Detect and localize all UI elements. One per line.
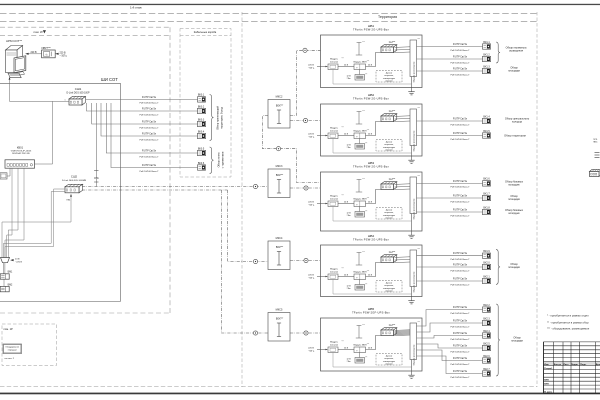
svg-text:питания: питания <box>330 344 339 346</box>
svg-text:колодцев: колодцев <box>508 212 520 215</box>
caption module ShV5 brace <box>496 304 500 376</box>
svg-text:пом. 1Р: пом. 1Р <box>4 327 14 331</box>
module ШВ4 battery AKB <box>359 280 361 285</box>
svg-text:Сш***: Сш*** <box>389 110 396 113</box>
svg-text:СШ2: СШ2 <box>71 175 78 179</box>
cable transition SV <box>1 258 10 263</box>
svg-text:PoE 10/100 Base-T: PoE 10/100 Base-T <box>450 201 470 203</box>
svg-text:Оборудование: Оборудование <box>5 347 19 349</box>
svg-text:ВК1.2: ВК1.2 <box>483 53 490 56</box>
fiber MKS1 up to module ShV1 port <box>290 50 321 115</box>
svg-text:ВК2.3: ВК2.3 <box>483 317 490 320</box>
module ШВ1 switch icon <box>381 45 397 47</box>
wire bundle KV01 a <box>7 168 12 257</box>
svg-text:24 В: 24 В <box>368 347 373 349</box>
svg-text:с турникетами: с турникетами <box>222 151 225 168</box>
svg-text:***: *** <box>342 195 345 197</box>
fiber MKS1 to module ShV2 port <box>290 120 321 122</box>
module ШВ1 output wire 1 <box>417 46 483 48</box>
module ШВ5 output wire 3 <box>417 336 483 339</box>
module ШВ3 switch icon <box>381 182 397 184</box>
svg-text:ГИП: ГИП <box>544 380 549 382</box>
module ШВ3 UPS module <box>354 201 366 207</box>
svg-text:***: *** <box>418 108 421 110</box>
svg-text:Сш***: Сш*** <box>389 324 396 327</box>
module ШВ1 enclosure box <box>321 35 423 88</box>
svg-text:АРМ СОТ**: АРМ СОТ** <box>6 39 23 43</box>
svg-text:7 Ач: 7 Ач <box>346 287 350 290</box>
module ШВ4 UPS module <box>354 274 366 280</box>
svg-text:площадки: площадки <box>508 70 520 73</box>
boundary bottom dash y=386.5 <box>0 386 537 388</box>
svg-text:PoE 10/100 Base-T: PoE 10/100 Base-T <box>450 364 470 366</box>
svg-text:~ 50Гц: ~ 50Гц <box>60 56 68 58</box>
wire SSh1 row2 <box>87 103 198 111</box>
svg-text:VIDEOVOX-IP-16/25: VIDEOVOX-IP-16/25 <box>11 150 32 152</box>
svg-text:F/UTP Cat 5e: F/UTP Cat 5e <box>142 96 157 99</box>
splice box МКС3 <box>268 169 290 198</box>
fiber node on SSh2-MKS2 run <box>253 184 257 188</box>
switch SSh1 <box>69 96 85 99</box>
svg-text:площадки: площадки <box>508 198 520 201</box>
fiber SSh2 second run <box>82 189 228 191</box>
svg-text:***: *** <box>365 357 368 359</box>
svg-text:ШВ1: ШВ1 <box>368 24 375 28</box>
svg-text:F/UTP Cat 5e: F/UTP Cat 5e <box>453 132 468 135</box>
svg-text:PoE 10/100 Base-T: PoE 10/100 Base-T <box>450 74 470 76</box>
svg-text:ВК1.6: ВК1.6 <box>483 178 490 181</box>
svg-text:***: *** <box>342 58 345 60</box>
svg-text:колодца: колодца <box>512 121 522 124</box>
module ШВ2 switch icon <box>381 114 397 116</box>
svg-text:F/UTP Cat 5e: F/UTP Cat 5e <box>453 252 468 255</box>
module ШВ4 bottom bus wire <box>333 280 412 295</box>
title block table <box>544 362 600 366</box>
module ШВ4 output wire 1 <box>417 255 483 257</box>
module ШВ1 wire AV to UPS <box>338 66 354 68</box>
svg-text:***: *** <box>362 325 365 327</box>
fiber SSh2 to MKS2 <box>82 186 268 188</box>
splice box МКС5 <box>268 313 290 342</box>
svg-text:***: *** <box>342 127 345 129</box>
svg-text:F/UTP Cat 5e: F/UTP Cat 5e <box>453 67 468 70</box>
svg-text:PoE 10/100 Base-T: PoE 10/100 Base-T <box>139 171 159 173</box>
module ШВ3 bottom bus wire <box>333 207 412 222</box>
svg-text:TFortis PSW-2G-UPS-Box: TFortis PSW-2G-UPS-Box <box>353 27 389 31</box>
wire SSh1 row5 <box>106 103 197 153</box>
svg-text:ВК1.5: ВК1.5 <box>483 130 490 133</box>
svg-text:** - приобретается в рамках об: ** - приобретается в рамках обор <box>547 320 589 324</box>
svg-text:питания: питания <box>330 61 339 63</box>
svg-text:КВ01: КВ01 <box>17 145 24 149</box>
module ШВ2 sensor dashed box <box>376 140 402 152</box>
svg-text:24 В: 24 В <box>15 258 20 260</box>
svg-text:220 В: 220 В <box>308 274 314 276</box>
svg-text:F/UTP Cat 5e: F/UTP Cat 5e <box>453 319 468 322</box>
svg-text:DISPLAY PRO 8D: DISPLAY PRO 8D <box>12 152 30 155</box>
svg-text:PoE 10/100 Base-T: PoE 10/100 Base-T <box>450 270 470 272</box>
svg-text:F/UTP Cat 5e: F/UTP Cat 5e <box>453 370 468 373</box>
svg-text:PoE 10/100 Base-T: PoE 10/100 Base-T <box>450 259 470 261</box>
room 1P dashed box <box>2 324 57 366</box>
svg-text:ЛВС: ЛВС <box>593 142 598 144</box>
svg-text:PoE 10/100 Base-T: PoE 10/100 Base-T <box>450 62 470 64</box>
module ШВ2 ground <box>411 146 413 157</box>
module ШВ5 ground <box>411 360 413 372</box>
svg-text:Подп.: Подп. <box>580 364 587 366</box>
svg-text:PoE 10/100 Base-T: PoE 10/100 Base-T <box>139 127 159 129</box>
module ШВ5 output wire 1 <box>417 310 483 326</box>
svg-text:PoE 10/100 Base-T: PoE 10/100 Base-T <box>139 103 159 105</box>
svg-text:F/UTP Cat 5e: F/UTP Cat 5e <box>453 263 468 266</box>
existing switch icon at sheet edge <box>590 169 600 171</box>
svg-text:F/UTP Cat 5e: F/UTP Cat 5e <box>453 117 468 120</box>
svg-text:24 В: 24 В <box>368 64 373 66</box>
svg-text:Модуль грозозащиты: Модуль грозозащиты <box>414 61 416 82</box>
svg-text:МКС4: МКС4 <box>276 237 283 240</box>
module ШВ5 bottom bus wire <box>333 353 412 368</box>
svg-text:PoE 10/100 Base-T: PoE 10/100 Base-T <box>450 351 470 353</box>
module ШВ2 output wire 1 <box>417 120 483 122</box>
wire SSh1 row6 <box>111 103 198 168</box>
caption module ShV4 brace <box>496 249 500 284</box>
svg-text:PoE 10/100 Base-T: PoE 10/100 Base-T <box>139 114 159 116</box>
svg-text:ИБП***: ИБП*** <box>42 46 52 50</box>
svg-text:24 В: 24 В <box>344 133 349 135</box>
module ШВ1 sensor dashed box <box>376 71 402 83</box>
svg-text:F/UTP Cat 5e: F/UTP Cat 5e <box>142 107 157 110</box>
svg-text:Кабельные короба: Кабельные короба <box>194 30 217 34</box>
fiber node chain <box>276 147 280 151</box>
svg-text:220 В: 220 В <box>308 133 314 135</box>
svg-text:Обзор территории: Обзор территории <box>504 134 526 138</box>
level mark triangle <box>43 30 46 33</box>
caption module ShV1 group a <box>496 42 500 63</box>
module ШВ1 surge ground symbol <box>358 43 360 56</box>
module ШВ3 wire AV to UPS <box>338 203 354 205</box>
svg-text:Модуль грозозащиты: Модуль грозозащиты <box>414 271 416 292</box>
svg-text:Обзор прилегающей: Обзор прилегающей <box>217 105 220 129</box>
svg-text:F/UTP Cat 5e: F/UTP Cat 5e <box>453 55 468 58</box>
svg-text:~50Гц: ~50Гц <box>308 277 315 279</box>
svg-text:Модуль ИБП: Модуль ИБП <box>354 272 367 274</box>
module ШВ5 UPS module <box>354 347 366 353</box>
svg-text:ГИП: ГИП <box>544 384 549 386</box>
svg-text:TFortis PSW-2GF-UPS-Box: TFortis PSW-2GF-UPS-Box <box>352 310 390 314</box>
svg-text:***: *** <box>362 42 365 44</box>
fiber riser to MKS4 <box>222 190 269 333</box>
equipment transfer box <box>3 344 22 354</box>
svg-text:МКС3: МКС3 <box>276 165 283 168</box>
svg-text:F/UTP Cat 5e: F/UTP Cat 5e <box>453 208 468 211</box>
workstation system unit tower <box>6 46 23 51</box>
module ШВ1 wires switch to strip <box>395 46 411 49</box>
svg-text:БМ2: БМ2 <box>8 284 13 286</box>
svg-text:***: *** <box>342 268 345 270</box>
module ШВ4 wire UPS to switch <box>366 263 382 277</box>
module ШВ4 ground <box>411 287 413 297</box>
wire UPS to ARM 220V <box>28 53 41 55</box>
svg-text:F/UTP Cat 5e: F/UTP Cat 5e <box>142 132 157 135</box>
svg-text:Сш***: Сш*** <box>389 178 396 181</box>
svg-text:ВК1.4: ВК1.4 <box>483 115 490 118</box>
module ШВ1 battery AKB <box>359 70 361 75</box>
svg-text:ВК2.5: ВК2.5 <box>483 342 490 345</box>
svg-text:24 В: 24 В <box>344 64 349 66</box>
svg-text:***: *** <box>365 211 368 213</box>
svg-text:7 Ач: 7 Ач <box>346 77 350 80</box>
module ШВ2 surge ground symbol <box>358 112 360 125</box>
svg-text:Модуль ИБП: Модуль ИБП <box>354 62 367 64</box>
svg-text:ограждения: ограждения <box>509 50 524 53</box>
switch SSh2 <box>65 184 83 187</box>
svg-text:***: *** <box>367 60 370 62</box>
module ШВ2 bottom bus wire <box>333 139 412 154</box>
svg-text:ВОК***: ВОК*** <box>276 319 283 321</box>
svg-text:обогрев: обогрев <box>385 149 392 151</box>
svg-text:Модуль: Модуль <box>330 196 339 198</box>
svg-text:24 В: 24 В <box>344 201 349 203</box>
svg-text:PoE 10/100 Base-T: PoE 10/100 Base-T <box>450 284 470 286</box>
module ШВ3 output wire 1 <box>417 182 483 184</box>
wire SSh1 row4 <box>101 103 198 136</box>
svg-text:F/UTP Cat 5e: F/UTP Cat 5e <box>453 180 468 183</box>
svg-text:передачи: передачи <box>8 350 17 352</box>
workstation keyboard <box>8 73 21 77</box>
svg-text:~50Гц: ~50Гц <box>308 350 315 352</box>
module ШВ5 output wire 5 <box>417 350 483 361</box>
svg-text:питания: питания <box>330 198 339 200</box>
wire BM1 to BM2 <box>3 279 5 286</box>
svg-text:Модуль: Модуль <box>330 269 339 271</box>
svg-text:ВК0.5: ВК0.5 <box>198 147 205 150</box>
svg-text:обогрев: обогрев <box>385 363 392 365</box>
svg-text:***: *** <box>367 129 370 131</box>
svg-text:~50Гц: ~50Гц <box>308 136 315 138</box>
svg-text:территории. Въезд: территории. Въезд <box>221 107 224 129</box>
svg-text:Модуль ИБП: Модуль ИБП <box>354 199 367 201</box>
svg-text:обогрев: обогрев <box>385 290 392 292</box>
svg-text:ВК2.4: ВК2.4 <box>483 330 490 333</box>
svg-text:PoE 10/100 Base-T: PoE 10/100 Base-T <box>450 313 470 315</box>
fiber node MKS3 in <box>253 259 257 263</box>
module ШВ2 battery AKB <box>359 139 361 144</box>
fiber MKS2 to module ShV3 port <box>290 187 321 189</box>
svg-text:Модуль грозозащиты: Модуль грозозащиты <box>414 198 416 219</box>
svg-text:площадки: площадки <box>508 266 520 269</box>
svg-text:F/UTP Cat 5e: F/UTP Cat 5e <box>142 164 157 167</box>
svg-text:12 В: 12 В <box>346 212 351 214</box>
svg-text:Сш***: Сш*** <box>389 41 396 44</box>
svg-text:обогрев: обогрев <box>385 217 392 219</box>
svg-text:ВК1.1: ВК1.1 <box>483 41 490 44</box>
svg-text:F/UTP Cat 5e: F/UTP Cat 5e <box>453 306 468 309</box>
module ШВ5 sensor dashed box <box>376 354 402 366</box>
monitor small box at edge <box>0 173 7 179</box>
module ШВ4 surge ground symbol <box>358 253 360 266</box>
svg-text:***: *** <box>365 284 368 286</box>
boundary vertical x=537 (territory edge) <box>536 12 538 387</box>
svg-text:F/UTP Cat 5e: F/UTP Cat 5e <box>453 194 468 197</box>
svg-text:TFortis PSW-2G-UPS-Box: TFortis PSW-2G-UPS-Box <box>353 164 389 168</box>
splice box МКС2 <box>268 100 290 129</box>
svg-text:***: *** <box>418 322 421 324</box>
module ШВ3 sensor dashed box <box>376 208 402 220</box>
svg-text:ВК2.2: ВК2.2 <box>483 304 490 307</box>
svg-text:Н. конт.: Н. конт. <box>544 391 553 393</box>
svg-text:F/UTP Cat 5e: F/UTP Cat 5e <box>453 277 468 280</box>
svg-text:ВК2.7: ВК2.7 <box>483 368 490 371</box>
svg-text:ОП1: ОП1 <box>94 178 99 180</box>
fiber node MKS1-ShV1 <box>303 48 307 52</box>
svg-text:ШВ3: ШВ3 <box>368 161 375 165</box>
svg-text:МКС2: МКС2 <box>276 96 283 99</box>
svg-text:F/UTP Cat 5e: F/UTP Cat 5e <box>453 332 468 335</box>
svg-text:№док.: №док. <box>571 363 578 366</box>
svg-text:24 В: 24 В <box>368 133 373 135</box>
svg-text:Модуль грозозащиты: Модуль грозозащиты <box>414 130 416 151</box>
svg-text:12 В: 12 В <box>346 285 351 287</box>
svg-text:ШВ2: ШВ2 <box>368 93 375 97</box>
svg-text:Изм.: Изм. <box>544 364 549 366</box>
boundary line floor 1 (horizontal dash y=13.4) <box>0 12 537 14</box>
module ШВ3 battery AKB <box>359 207 361 212</box>
svg-text:Модуль: Модуль <box>330 128 339 130</box>
svg-text:площадки: площадки <box>511 340 523 343</box>
wire PV1 arrow into SSh2 <box>2 197 71 258</box>
svg-text:***: *** <box>367 343 370 345</box>
fiber node MKS2-ShV3 <box>304 186 308 190</box>
svg-text:PoE 10/100 Base-T: PoE 10/100 Base-T <box>139 156 159 158</box>
svg-text:~220 В: ~220 В <box>15 262 23 264</box>
svg-text:ВОК***: ВОК*** <box>276 175 283 177</box>
svg-text:∿: ∿ <box>45 53 48 57</box>
svg-text:F/UTP Cat 5e: F/UTP Cat 5e <box>453 43 468 46</box>
svg-text:ШВ5: ШВ5 <box>368 307 375 311</box>
module ШВ3 surge ground symbol <box>358 180 360 193</box>
boundary line floor 2 (horizontal dash y=21.4) <box>0 20 537 22</box>
workstation monitor <box>14 56 26 73</box>
svg-text:7 Ач: 7 Ач <box>346 360 350 363</box>
svg-text:PoE 10/100 Base-T: PoE 10/100 Base-T <box>450 377 470 379</box>
svg-text:PoE 10/100 Base-T: PoE 10/100 Base-T <box>450 326 470 328</box>
svg-text:F/UTP Cat 5e: F/UTP Cat 5e <box>142 149 157 152</box>
svg-text:***: *** <box>362 111 365 113</box>
module ШВ3 enclosure box <box>321 172 423 231</box>
wire ARM to SSh1 <box>10 80 70 102</box>
svg-text:ВК0.1: ВК0.1 <box>198 94 205 97</box>
module ШВ4 output wire 3 <box>417 280 483 282</box>
svg-text:Территория: Территория <box>378 15 397 19</box>
boundary room 1P dash y=313 <box>0 312 170 314</box>
module ШВ2 wire AV to UPS <box>338 135 354 137</box>
svg-text:СШ1: СШ1 <box>75 87 82 91</box>
svg-text:***: *** <box>362 252 365 254</box>
module ШВ1 bottom bus wire <box>333 70 412 85</box>
wire SSh1 row3 <box>92 103 198 124</box>
svg-text:колодцев: колодцев <box>508 184 520 187</box>
module ШВ5 wire AV to UPS <box>338 349 354 351</box>
svg-text:***: *** <box>367 270 370 272</box>
module ШВ4 switch icon <box>381 255 397 257</box>
module ШВ1 output wire 3 <box>417 70 483 72</box>
fiber MKS4 to module ShV5 port <box>290 332 321 334</box>
wire KV01 to SSh1 <box>35 101 53 164</box>
module ШВ4 enclosure box <box>321 245 423 297</box>
svg-text:PoE 10/100 Base-T: PoE 10/100 Base-T <box>450 124 470 126</box>
svg-text:220 В: 220 В <box>308 201 314 203</box>
svg-text:220 В: 220 В <box>308 64 314 66</box>
module ШВ5 wires switch to strip <box>395 329 411 332</box>
svg-text:12 В: 12 В <box>346 144 351 146</box>
module ШВ2 output wire 2 <box>417 135 483 137</box>
svg-text:PoE 10/100 Base-T: PoE 10/100 Base-T <box>450 339 470 341</box>
svg-text:220 В: 220 В <box>31 52 37 54</box>
svg-text:ВОК***: ВОК*** <box>276 247 283 249</box>
module ШВ5 switch icon <box>381 328 397 330</box>
module ШВ4 wire AV to UPS <box>338 276 354 278</box>
wire monitor to recorder <box>7 168 10 176</box>
svg-text:питания: питания <box>330 130 339 132</box>
module ШВ3 wires switch to strip <box>395 183 411 186</box>
splice box МКС4 <box>268 241 290 270</box>
svg-text:***: *** <box>365 143 368 145</box>
module ШВ2 enclosure box <box>321 104 423 156</box>
svg-text:ВК0.2: ВК0.2 <box>198 105 205 108</box>
cabinet ShI SOT box <box>0 84 121 302</box>
svg-text:Модуль грозозащиты: Модуль грозозащиты <box>414 344 416 365</box>
svg-text:Дата: Дата <box>596 364 600 366</box>
svg-text:ШВ4: ШВ4 <box>368 234 375 238</box>
module ШВ2 wire UPS to switch <box>366 122 382 136</box>
svg-text:D-Link DES-F05-100/МВ: D-Link DES-F05-100/МВ <box>62 180 87 182</box>
fiber riser to MKS3 <box>228 190 269 262</box>
svg-text:***: *** <box>418 249 421 251</box>
svg-text:7 Ач: 7 Ач <box>346 214 350 217</box>
module ШВ3 ground <box>411 214 413 232</box>
fiber node MKS4-ShV5 <box>304 331 308 335</box>
fiber MKS1 left chain down to ShV3 second port <box>263 116 322 183</box>
svg-text:PoE 10/100 Base-T: PoE 10/100 Base-T <box>450 139 470 141</box>
module ШВ1 output wire 2 <box>417 58 483 60</box>
module ШВ1 UPS module <box>354 64 366 70</box>
module ШВ5 wire UPS to switch <box>366 336 382 350</box>
svg-text:сущ.: сущ. <box>593 139 598 141</box>
svg-text:F/UTP Cat 5e: F/UTP Cat 5e <box>453 344 468 347</box>
svg-text:***: *** <box>418 39 421 41</box>
svg-text:24 В: 24 В <box>368 274 373 276</box>
wire SV down <box>2 263 4 274</box>
svg-text:ВК1.8: ВК1.8 <box>483 206 490 209</box>
svg-text:пом. W: пом. W <box>34 30 44 34</box>
svg-text:***: *** <box>342 341 345 343</box>
brace group entrance cameras <box>210 95 214 141</box>
module ШВ5 enclosure box <box>321 318 423 371</box>
module ШВ3 wire UPS to switch <box>366 190 382 204</box>
cable ducts dashed box <box>180 29 231 178</box>
svg-text:ВК1.7: ВК1.7 <box>483 192 490 195</box>
svg-text:1: 1 <box>65 99 66 101</box>
svg-text:ВК0.3: ВК0.3 <box>198 118 205 121</box>
svg-text:ШИ СОТ: ШИ СОТ <box>101 77 118 82</box>
svg-text:ВК0.6: ВК0.6 <box>198 162 205 165</box>
svg-text:ВК1.9: ВК1.9 <box>483 250 490 253</box>
sheet frame bottom border <box>0 393 600 395</box>
fiber MKS3 to module ShV4 port <box>290 260 321 262</box>
wire 220V input to UPS <box>56 53 59 55</box>
module ШВ2 UPS module <box>354 133 366 139</box>
boundary line room W bottom (horizontal dash y=35.3) <box>0 34 170 36</box>
